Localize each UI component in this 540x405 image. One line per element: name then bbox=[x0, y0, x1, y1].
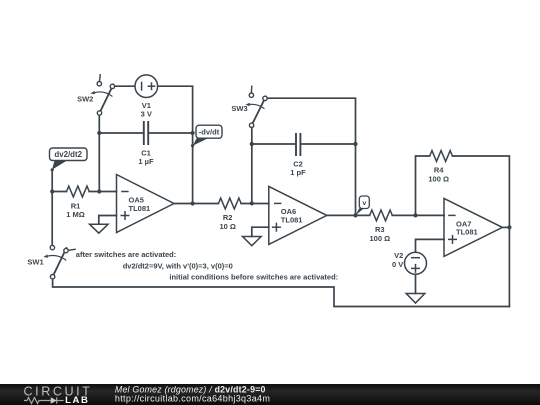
ground (OA6 +) bbox=[243, 237, 262, 246]
switch SW1 bbox=[43, 245, 75, 278]
switch SW3 bbox=[245, 86, 267, 128]
wire OA6 output to R3 bbox=[327, 214, 370, 216]
resistor R2 bbox=[218, 198, 241, 209]
svg-text:0 V: 0 V bbox=[392, 260, 403, 269]
wire C1 left lead bbox=[99, 132, 143, 134]
wire OA5 output to R2 bbox=[174, 203, 218, 205]
wire R1 node down to SW1 bbox=[51, 192, 53, 246]
junction R1 right / OA5 inverting input bbox=[97, 189, 101, 193]
svg-text:TL081: TL081 bbox=[281, 216, 303, 225]
wire SW3 throw right and down to C2 right node bbox=[267, 98, 355, 144]
footer bar (decorative) bbox=[0, 384, 540, 405]
flag -dv/dt bbox=[191, 125, 222, 147]
junction R3 right / R4 left / OA7 inverting input bbox=[413, 213, 417, 217]
wire OA6 plus to ground bbox=[252, 227, 269, 236]
wire R1 right lead to OA5 minus bbox=[89, 191, 116, 193]
junction C2 right / SW3 throw rail bbox=[353, 142, 357, 146]
wire OA7 output bbox=[502, 226, 509, 228]
svg-text:R4: R4 bbox=[434, 166, 444, 175]
wire SW2 pole down to C1/R1 column bbox=[98, 115, 100, 191]
junction C1 left / SW2 pole bbox=[97, 131, 101, 135]
svg-text:1 µF: 1 µF bbox=[138, 157, 154, 166]
wire SW3 pole down to OA6 minus node bbox=[251, 128, 253, 204]
svg-text:100 Ω: 100 Ω bbox=[428, 175, 449, 184]
svg-text:http://circuitlab.com/ca64bhj3: http://circuitlab.com/ca64bhj3q3a4m bbox=[115, 394, 270, 404]
wire R1 left lead bbox=[52, 191, 66, 193]
wire C2 right lead bbox=[301, 143, 355, 145]
wire SW2 throw to V1 bbox=[115, 85, 135, 87]
svg-text:1 MΩ: 1 MΩ bbox=[66, 210, 85, 219]
junction C1 right / V1 rail bbox=[191, 131, 195, 135]
flag v bbox=[356, 196, 370, 215]
svg-text:R2: R2 bbox=[223, 213, 233, 222]
op-amp OA5 bbox=[117, 175, 175, 233]
wire C1 right lead bbox=[149, 132, 193, 134]
op-amp OA6 bbox=[269, 186, 327, 244]
wire R2 right lead to OA6 minus bbox=[241, 203, 269, 205]
svg-text:initial conditions before swit: initial conditions before switches are a… bbox=[169, 273, 338, 282]
svg-text:10 Ω: 10 Ω bbox=[219, 222, 235, 231]
junction OA7 output / feedback rail bbox=[507, 225, 511, 229]
wire C2 left lead bbox=[252, 143, 295, 145]
wire V1 right to n2 corner bbox=[158, 86, 193, 203]
wire R3 right lead to OA7 minus bbox=[392, 214, 444, 216]
svg-text:3 V: 3 V bbox=[141, 109, 152, 118]
wire right rail down bbox=[508, 227, 510, 306]
wire V2 bottom to ground bbox=[415, 274, 417, 293]
svg-text:100 Ω: 100 Ω bbox=[369, 234, 390, 243]
svg-text:R3: R3 bbox=[375, 225, 385, 234]
ground (OA5 +) bbox=[90, 224, 109, 233]
switch SW2 bbox=[90, 74, 114, 115]
junction C2 left / SW3 pole bbox=[250, 142, 254, 146]
wire R4 left leg bbox=[416, 156, 430, 215]
svg-text:TL081: TL081 bbox=[456, 228, 478, 237]
capacitor C1 bbox=[144, 121, 148, 145]
flag dv2/dt2 bbox=[50, 148, 88, 171]
wire OA5 plus to ground bbox=[99, 216, 117, 225]
op-amp OA7 bbox=[444, 198, 502, 256]
capacitor C2 bbox=[296, 133, 300, 156]
wire V2 top to OA7 plus bbox=[416, 239, 445, 252]
ground (V2) bbox=[406, 294, 425, 304]
svg-text:after switches are activated:: after switches are activated: bbox=[76, 250, 176, 259]
svg-text:SW1: SW1 bbox=[27, 258, 43, 267]
svg-text:dv2/dt2: dv2/dt2 bbox=[54, 150, 82, 159]
svg-text:SW3: SW3 bbox=[231, 104, 247, 113]
svg-text:V2: V2 bbox=[394, 251, 403, 260]
wire R4 right lead to right rail bbox=[452, 156, 509, 227]
junction node dv2/dt2 / R1 left / SW1 bbox=[50, 189, 54, 193]
svg-text:v: v bbox=[363, 200, 367, 207]
svg-text:LAB: LAB bbox=[65, 395, 89, 405]
wire dv2dt2 anchor down to R1 left bbox=[51, 170, 53, 192]
svg-text:SW2: SW2 bbox=[77, 95, 93, 104]
resistor R3 bbox=[370, 210, 393, 221]
resistor R4 bbox=[430, 151, 453, 162]
wire C2 right node down to OA6 output node bbox=[355, 144, 357, 215]
junction R2 right / OA6 inverting input bbox=[250, 201, 254, 205]
svg-text:TL081: TL081 bbox=[129, 204, 151, 213]
logo resistor-diode glyph bbox=[24, 397, 64, 403]
svg-text:R1: R1 bbox=[71, 201, 81, 210]
resistor R1 bbox=[67, 186, 90, 197]
junction OA5 output / R2 left bbox=[191, 201, 195, 205]
svg-text:-dv/dt: -dv/dt bbox=[199, 127, 220, 136]
wire SW1 pole down and bottom return rail bbox=[53, 279, 510, 307]
svg-text:1 pF: 1 pF bbox=[290, 168, 306, 177]
svg-text:dv2/dt2=9V, with v'(0)=3, v(0): dv2/dt2=9V, with v'(0)=3, v(0)=0 bbox=[123, 262, 233, 271]
junction node v / OA6 output / R3 left bbox=[353, 213, 357, 217]
voltage source V2 bbox=[405, 252, 427, 274]
voltage source V1 bbox=[135, 75, 158, 98]
